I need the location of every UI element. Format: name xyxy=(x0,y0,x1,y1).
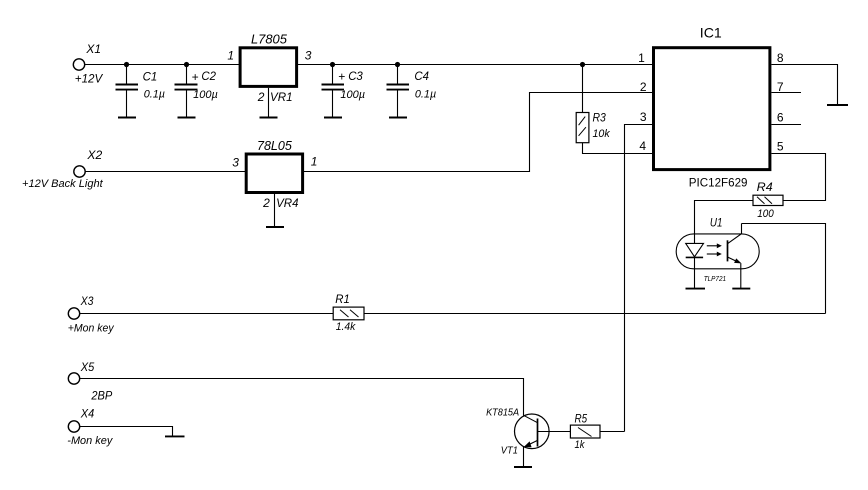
wire IC1 pin6 stub xyxy=(772,124,802,126)
node junction C4 xyxy=(395,62,400,67)
svg-text:1: 1 xyxy=(638,51,645,65)
svg-text:X2: X2 xyxy=(86,148,102,162)
ground C1 xyxy=(118,117,136,119)
svg-text:5: 5 xyxy=(777,140,784,154)
svg-text:R1: R1 xyxy=(335,292,350,306)
wire U1 collector to R1 net xyxy=(742,224,826,314)
wire R5 to IC1 pin3 net xyxy=(600,431,625,433)
resistor R5 1k xyxy=(570,411,600,451)
voltage regulator VR1 L7805 xyxy=(227,32,311,104)
resistor R1 1.4k xyxy=(333,292,364,333)
svg-text:6: 6 xyxy=(777,111,784,125)
phototransistor xyxy=(727,240,729,261)
capacitor C3 xyxy=(322,65,366,118)
wire R4 to U1 LED anode xyxy=(695,201,754,244)
LED diode xyxy=(686,243,704,256)
voltage regulator VR4 78L05 xyxy=(232,138,317,210)
svg-text:R5: R5 xyxy=(575,411,588,425)
svg-text:C3: C3 xyxy=(348,69,363,83)
terminal X3 xyxy=(68,294,115,335)
svg-text:7: 7 xyxy=(777,80,784,94)
svg-text:100µ: 100µ xyxy=(340,89,365,101)
node junction R3 top xyxy=(580,62,585,67)
wire VR1 pin2 to ground xyxy=(268,88,270,118)
svg-text:+Mon key: +Mon key xyxy=(68,323,115,335)
svg-text:+12V Back Light: +12V Back Light xyxy=(22,178,104,190)
wire X3 to R1 xyxy=(80,313,334,315)
svg-text:2: 2 xyxy=(257,90,265,104)
svg-text:2BP: 2BP xyxy=(90,388,112,402)
wire +12V rail X1 to VR1 pin1 xyxy=(85,64,240,66)
wire IC1 pin8 to ground xyxy=(772,65,838,106)
node junction C3 xyxy=(330,62,335,67)
svg-text:1: 1 xyxy=(227,48,234,62)
svg-text:100: 100 xyxy=(757,208,774,220)
light arrows xyxy=(707,245,718,247)
wire X2 to VR4 pin3 xyxy=(85,171,246,173)
svg-text:TLP721: TLP721 xyxy=(704,276,726,283)
terminal X1 xyxy=(73,42,103,85)
svg-text:2: 2 xyxy=(262,196,270,210)
svg-text:0.1µ: 0.1µ xyxy=(144,88,165,100)
svg-text:3: 3 xyxy=(640,110,647,124)
ground VR4 xyxy=(266,226,284,228)
wire R3 bottom to IC1 pin4 xyxy=(583,143,653,154)
ground VT1 xyxy=(514,466,532,468)
svg-text:4: 4 xyxy=(639,139,646,153)
transistor VT1 KT815A xyxy=(486,407,570,456)
wire VT1 emitter to ground xyxy=(523,447,525,467)
svg-text:100µ: 100µ xyxy=(193,89,218,101)
optocoupler U1 TLP721 xyxy=(676,216,759,289)
svg-text:X3: X3 xyxy=(80,294,94,308)
ground C2 xyxy=(178,117,196,119)
ground pin8 xyxy=(827,104,848,106)
wire U1 LED cathode to ground xyxy=(694,257,696,288)
terminal X2 xyxy=(22,148,104,190)
svg-text:PIC12F629: PIC12F629 xyxy=(689,175,748,189)
svg-text:1k: 1k xyxy=(575,439,585,451)
capacitor C4 xyxy=(387,65,437,118)
svg-text:-Mon key: -Mon key xyxy=(67,435,113,447)
svg-text:2: 2 xyxy=(640,80,647,94)
ground X4 xyxy=(165,435,185,437)
svg-text:R4: R4 xyxy=(757,180,773,194)
ground C4 xyxy=(389,117,407,119)
wire R3 top xyxy=(582,65,584,113)
wire X4 to ground xyxy=(80,427,173,437)
wire IC1 pin7 stub xyxy=(772,92,802,94)
wire VR4 pin2 to ground xyxy=(274,194,276,227)
svg-text:+: + xyxy=(338,70,345,84)
ground U1 emitter xyxy=(732,288,750,290)
svg-text:X5: X5 xyxy=(80,360,95,374)
svg-text:VT1: VT1 xyxy=(501,446,518,457)
svg-text:1.4k: 1.4k xyxy=(336,321,356,333)
ground U1 LED xyxy=(686,288,706,290)
wire IC1 pin5 to R4 xyxy=(772,154,826,201)
svg-text:78L05: 78L05 xyxy=(257,138,293,153)
wire X5 to VT1 collector xyxy=(80,379,524,416)
capacitor C2 xyxy=(175,65,218,118)
wire R1 to U1 collector net xyxy=(364,313,826,315)
svg-text:X1: X1 xyxy=(85,42,101,56)
node junction C1 xyxy=(124,62,129,67)
svg-text:C4: C4 xyxy=(414,69,429,83)
ground C3 xyxy=(324,117,342,119)
node junction C2 xyxy=(184,62,189,67)
ground VR1 xyxy=(260,117,278,119)
svg-text:VR4: VR4 xyxy=(276,196,299,210)
resistor R3 10k xyxy=(576,111,610,143)
svg-text:10k: 10k xyxy=(593,128,611,140)
capacitor C1 xyxy=(116,65,166,118)
svg-text:+12V: +12V xyxy=(75,71,103,85)
svg-text:VR1: VR1 xyxy=(270,90,293,104)
wire VR4 pin1 to IC1 pin2 xyxy=(304,93,652,172)
wire IC1 pin3 to R5 xyxy=(625,125,653,432)
svg-text:1: 1 xyxy=(311,154,318,168)
svg-text:3: 3 xyxy=(305,48,312,62)
svg-text:0.1µ: 0.1µ xyxy=(415,88,436,100)
svg-text:C2: C2 xyxy=(201,69,216,83)
svg-text:X4: X4 xyxy=(80,406,95,420)
svg-text:R3: R3 xyxy=(593,111,607,125)
svg-text:U1: U1 xyxy=(710,216,723,230)
svg-text:IC1: IC1 xyxy=(700,24,722,40)
svg-text:C1: C1 xyxy=(143,70,158,84)
IC U1 PIC12F629 xyxy=(638,24,784,189)
svg-text:L7805: L7805 xyxy=(251,32,288,47)
terminal X4 xyxy=(67,406,113,447)
svg-text:KT815A: KT815A xyxy=(486,407,519,418)
svg-text:+: + xyxy=(192,70,199,84)
terminal X5 xyxy=(68,360,112,402)
resistor R4 100 xyxy=(753,180,783,220)
svg-text:8: 8 xyxy=(777,51,784,65)
svg-text:3: 3 xyxy=(232,156,239,170)
wire +5V rail VR1 pin3 to IC1 pin1 xyxy=(298,64,652,66)
